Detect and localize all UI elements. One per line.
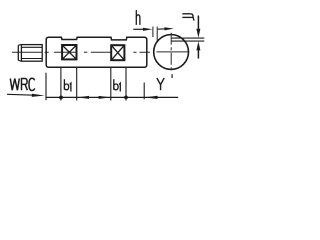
extension line right (Y)	[143, 83, 145, 100]
keyseat lines on circle	[172, 38, 205, 41]
arrow right-pointing at keyway2 left	[99, 96, 111, 99]
circle vertical centerline	[170, 33, 172, 70]
extension line keyway2 left	[110, 68, 112, 101]
keyway box 2	[111, 45, 124, 60]
shaft body	[46, 37, 147, 67]
circle horizontal centerline	[157, 51, 189, 53]
threaded stub WRC end	[18, 45, 42, 62]
extension line keyway1 left	[60, 68, 62, 101]
extension line keyway1 right	[76, 68, 78, 101]
label h (right, rotated, drawn as path)	[182, 14, 194, 21]
b1 label 2	[114, 79, 121, 91]
WRC leader arrow	[7, 94, 45, 97]
arrow left-pointing at keyway1 right	[77, 96, 89, 99]
bottom dimension line	[46, 96, 178, 98]
h dimension right: vertical line with arrows	[196, 16, 200, 59]
b1 label 1	[64, 79, 71, 91]
dot at b1-2 right	[124, 96, 128, 100]
WRC label	[10, 78, 34, 90]
Y label	[157, 78, 164, 90]
label h (top)	[136, 10, 140, 25]
keyway box 1	[62, 45, 76, 59]
arrow left-pointing at Y ext line	[145, 96, 158, 99]
extension line keyway2 right	[125, 68, 127, 101]
centerline shaft	[12, 51, 150, 53]
h dimension top: line and arrow	[133, 27, 174, 43]
tick mark (centerline dash below circle)	[171, 74, 173, 78]
dot at b1-1 left	[59, 96, 63, 100]
end-view circle	[154, 35, 189, 70]
extension line WRC (shaft left face)	[45, 73, 47, 101]
